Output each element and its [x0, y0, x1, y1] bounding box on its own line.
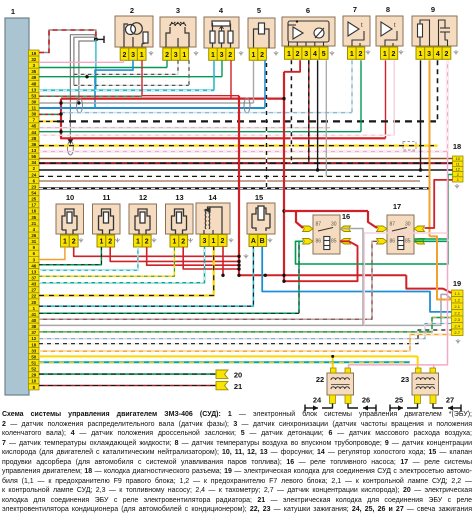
svg-text:2: 2 [108, 239, 112, 246]
svg-text:1: 1 [212, 238, 216, 245]
wire red wire injector 12 pin 2 [147, 247, 239, 265]
connector 20 [216, 370, 228, 378]
wire grey dashed riser sensor 3 pin 3 [177, 60, 179, 74]
svg-text:2.3: 2.3 [454, 317, 460, 322]
wire white black-dashed wire [39, 175, 430, 177]
wire red wire injector 11 pin 2 [110, 247, 239, 261]
svg-text:2: 2 [296, 51, 300, 58]
svg-text:15: 15 [255, 193, 263, 202]
svg-text:7: 7 [353, 5, 357, 14]
wire grey screen wire c [79, 41, 96, 102]
caption text block [2, 410, 472, 515]
svg-text:A: A [251, 238, 256, 245]
svg-text:1: 1 [11, 7, 15, 16]
svg-text:16: 16 [31, 209, 36, 214]
wire orange wire to injector 10 pin 1 [39, 247, 65, 260]
node junction bus a [237, 274, 240, 277]
sensor 6 mass air flow sensor [282, 17, 335, 46]
connector pins of valve 15 [249, 235, 267, 247]
wire teal dashed wire to regulator 14 pin 3 [39, 247, 205, 283]
svg-text:40: 40 [31, 318, 36, 323]
svg-text:21: 21 [234, 382, 242, 391]
wire pink wire to coil tops [349, 152, 448, 369]
svg-text:25: 25 [31, 197, 36, 202]
svg-text:1: 1 [252, 52, 256, 59]
wire red riser sensor 6 pin 2 to trunk [284, 60, 300, 72]
connector pins of injector 13 [170, 235, 188, 247]
node junction on green [59, 130, 62, 133]
svg-text:4: 4 [219, 6, 224, 15]
svg-text:30: 30 [31, 99, 36, 104]
antenna mark near 11 [115, 238, 119, 243]
antenna mark near 6 [330, 51, 334, 56]
svg-text:38: 38 [31, 324, 36, 329]
svg-text:49: 49 [31, 75, 36, 80]
svg-text:1: 1 [383, 51, 387, 58]
svg-text:26: 26 [31, 233, 36, 238]
svg-text:3: 3 [220, 52, 224, 59]
wire black dashed wire to connector 19 [39, 330, 452, 344]
svg-text:34: 34 [31, 160, 36, 165]
wire green dashed wire to injector 11 pin 1 [39, 247, 101, 265]
screen terminator symbol [96, 36, 104, 43]
svg-text:2: 2 [358, 51, 362, 58]
svg-text:3: 3 [304, 51, 308, 58]
svg-text:35: 35 [31, 215, 36, 220]
svg-text:1: 1 [182, 52, 186, 59]
wire yellow wire to ignition coils [39, 355, 418, 357]
svg-text:87: 87 [390, 222, 396, 228]
wire black wire to connector 18 [39, 169, 453, 171]
wire pink riser to sensor 2 pin 2 [123, 60, 125, 62]
ECU connector pin column (pins of unit 1) [29, 50, 40, 390]
wire black dashed shield wire of knock sensor [266, 63, 268, 188]
dashed boundary box [403, 142, 416, 151]
wire yellow black-dashed stub [39, 120, 59, 122]
svg-text:13: 13 [31, 148, 36, 153]
wire yellow black-dashed wire to regulator 14 pin 1 [39, 247, 214, 296]
svg-text:B: B [260, 238, 265, 245]
wire pink dashed wire to sensor 9 pin 2 [39, 151, 448, 153]
antenna mark near 2 [149, 51, 153, 56]
node junction yellow [331, 355, 334, 358]
wire black dashed wire (wide) [57, 120, 438, 122]
svg-text:46: 46 [31, 263, 36, 268]
svg-text:2: 2 [165, 52, 169, 59]
svg-text:16: 16 [342, 212, 350, 221]
relay 17 engine management system relay [387, 215, 414, 254]
connector pins of sensor 8 [381, 47, 398, 59]
wire dark red dashed wire from ECU pin 19 to ignition [39, 30, 96, 53]
node junction injector 13 red [237, 267, 240, 270]
antenna mark near 5 [274, 51, 278, 56]
svg-text:35: 35 [31, 69, 36, 74]
antenna mark below 18 [455, 184, 459, 189]
svg-text:44: 44 [31, 130, 36, 135]
wire red supply bus lower [239, 274, 406, 276]
injector 12 [129, 204, 157, 234]
diagnostic connector 18 [453, 156, 464, 182]
wire black white-dashed wire [39, 187, 430, 189]
wire red wire injector 10 pin 2 [74, 247, 239, 256]
svg-text:23: 23 [401, 375, 409, 384]
svg-text:48: 48 [31, 81, 36, 86]
node junction shield [77, 101, 80, 104]
svg-text:28: 28 [31, 136, 36, 141]
injector 13 [166, 204, 194, 234]
svg-text:12: 12 [139, 193, 147, 202]
node junction injector 11 red [237, 260, 240, 263]
node junction of screen wires [94, 37, 98, 41]
ECU unit 1 (electronic control unit) [5, 18, 29, 395]
svg-text:29: 29 [31, 373, 36, 378]
wire dark red black-dashed wire to connector 21 [39, 385, 216, 387]
node junction black 2 [419, 168, 422, 171]
svg-text:51: 51 [31, 360, 36, 365]
wire red wire relay 17 pin 30 to connector 18 [425, 180, 453, 228]
wire grey screened wire to knock sensor pin 1 [39, 102, 254, 104]
svg-text:1.1: 1.1 [454, 291, 460, 296]
junction arrow on screen drop [67, 139, 73, 144]
wire green dashed wire relay 16 pin 86 [299, 241, 303, 313]
wire grey wire to connector 19 socket 2.1 [363, 294, 452, 325]
node junction red trunk / grey [59, 101, 62, 104]
svg-text:86: 86 [390, 239, 396, 245]
svg-text:50: 50 [31, 354, 36, 359]
svg-text:8: 8 [386, 5, 390, 14]
screen ellipse left [77, 98, 83, 113]
connector pins of injector 12 [134, 235, 152, 247]
wire green wire ECU to sensor 3 pin 2 [39, 67, 167, 69]
connector pins of sensor 9 [416, 47, 451, 59]
sensor 9 oxygen concentration sensor [412, 16, 457, 46]
node junction black [316, 168, 319, 171]
svg-text:85: 85 [331, 239, 337, 245]
wire red wire regulator 14 pin 2 [222, 247, 224, 276]
wire turquoise drop from screen junction [95, 39, 97, 90]
svg-text:52: 52 [31, 367, 36, 372]
sensor 4 throttle position sensor [204, 17, 239, 48]
wire grey screen wire a [70, 35, 96, 146]
wire pale blue dashed wire to sensor 7 pin 1 [61, 112, 352, 114]
spark plug 26 [363, 405, 376, 412]
wire grey dashed riser sensor 3 pin 1 [188, 60, 190, 85]
svg-text:18: 18 [31, 342, 36, 347]
svg-text:27: 27 [446, 396, 454, 405]
svg-text:11: 11 [31, 106, 36, 111]
svg-text:31: 31 [31, 239, 36, 244]
connector pins of sensor 6 [285, 47, 329, 59]
svg-text:13: 13 [31, 269, 36, 274]
svg-text:1: 1 [457, 177, 459, 182]
wire pale pink wire near relay 17 [364, 233, 447, 325]
wire brown thin wire [39, 180, 420, 182]
wire black dashed riser sensor 9 pin 4 [437, 60, 439, 121]
injector 11 [93, 204, 121, 234]
node junction injector 12 red [237, 264, 240, 267]
wire grey riser knock sensor pin 1 [253, 60, 255, 103]
wire pink wire ECU to sensor 2 pin 2 [39, 61, 124, 63]
svg-text:24: 24 [313, 396, 322, 405]
wire orange dashed wire to connector 19 socket 2.7 [39, 335, 452, 352]
wire red bus to relays [296, 210, 368, 212]
connector pins of injector 11 [97, 235, 115, 247]
wire black wire coil 23 to plug 27 [433, 404, 443, 409]
svg-text:23: 23 [31, 184, 36, 189]
connector pins of sensor 2 [120, 48, 146, 60]
svg-text:85: 85 [405, 239, 411, 245]
svg-text:2: 2 [445, 51, 449, 58]
svg-text:26: 26 [362, 396, 370, 405]
svg-text:41: 41 [31, 312, 36, 317]
wire black wire coil 22 to plug 24 [322, 404, 333, 409]
svg-text:10: 10 [31, 379, 36, 384]
wire thick red feed wire [61, 97, 284, 99]
connector pins of sensor 7 [348, 47, 365, 59]
svg-text:33: 33 [31, 348, 36, 353]
wire pink blue-dashed wire to connector 19 socket 2.4 [39, 324, 452, 339]
wire pale blue riser sensor 7 pin 1 [351, 60, 353, 112]
screen ellipse right [244, 98, 250, 113]
wire pale pink riser sensor 8 pin 2 [393, 60, 395, 135]
svg-text:2: 2 [221, 238, 225, 245]
svg-text:55: 55 [31, 154, 36, 159]
wire green wire ECU to sensor 4 pin 3 [39, 76, 222, 78]
wire red wire relay 16 pin 85 to trunk [284, 241, 358, 281]
svg-text:87: 87 [316, 222, 322, 228]
node junction regulator red [221, 274, 224, 277]
svg-text:45: 45 [31, 124, 36, 129]
svg-text:1: 1 [99, 239, 103, 246]
wire blue screened wire to knock sensor pin 2 [39, 107, 265, 109]
wire blue wire from sensor 2 pin 3 [95, 60, 133, 108]
svg-text:36: 36 [31, 142, 36, 147]
node junction trunk2 bus [282, 209, 285, 212]
wire green red-dashed wire [39, 95, 142, 97]
wire black wire coil 22 to plug 26 [348, 404, 358, 409]
screen ellipse lower [67, 141, 73, 155]
antenna mark near 8 [399, 50, 403, 55]
node junction on green wire [85, 75, 88, 78]
node junction red trunk2 end [282, 280, 285, 283]
wire grey dashed screen wire to sensor 3 pin 3 [74, 73, 178, 75]
svg-text:22: 22 [316, 375, 324, 384]
wire red drop to connector 19 socket 1.1 [406, 275, 451, 293]
svg-text:5: 5 [322, 51, 326, 58]
wire green black-dashed wire to connector 20 [39, 373, 216, 375]
svg-text:20: 20 [31, 300, 36, 305]
wire yellow black-dashed wire [39, 145, 438, 147]
svg-text:32: 32 [31, 57, 36, 62]
svg-text:1.2: 1.2 [454, 298, 460, 303]
spark plug 24 [305, 405, 318, 412]
node junction bus b [264, 274, 267, 277]
wire turquoise riser to sensor 4 pin 1 [213, 60, 215, 90]
svg-text:3: 3 [176, 6, 180, 15]
wire grey wire relay 16 pin 30 [340, 229, 363, 326]
sensor 8 intake air temperature sensor [376, 16, 403, 46]
antenna mark near red bus [244, 254, 248, 259]
wire yellow branch to coil 23 [417, 356, 419, 368]
svg-text:2.4: 2.4 [454, 324, 460, 329]
svg-text:18: 18 [453, 142, 461, 151]
wire orange wire to connector 19 socket 1.2 [430, 236, 452, 299]
wire green wire relay 17 pin 85 to connector 18 [414, 175, 453, 240]
wire red trunk vertical 2 (main feed) [283, 72, 285, 281]
svg-text:2.1: 2.1 [454, 304, 460, 309]
wire green red-dashed stub [39, 113, 61, 115]
wire red bus branch [284, 210, 296, 212]
injector 10 [56, 204, 84, 234]
wire red riser sensor 4 pin 2 [230, 60, 232, 98]
svg-text:4: 4 [313, 51, 317, 58]
wire red diagonal to relay 17 pin 87 [368, 211, 377, 228]
purge valve 15 [247, 203, 275, 234]
svg-text:1: 1 [287, 51, 291, 58]
svg-text:25: 25 [395, 396, 403, 405]
svg-text:27: 27 [31, 288, 36, 293]
wire green wire relay 16 pin 86 to relay 17 pin 85 [296, 241, 449, 264]
antenna mark near 15 [268, 238, 272, 243]
svg-text:9: 9 [431, 5, 435, 14]
wire green wire to sensor 7 pin 2 [39, 131, 361, 133]
antenna mark near 10 [79, 238, 83, 243]
svg-text:17: 17 [31, 203, 36, 208]
wire grey riser sensor 6 pin 5 [325, 60, 327, 176]
wire red trunk vertical 1 (injector feed) [238, 96, 240, 276]
antenna mark near 4 [239, 51, 243, 56]
svg-text:30: 30 [405, 222, 411, 228]
sensor 7 coolant temperature sensor [343, 16, 370, 46]
svg-text:19: 19 [31, 51, 36, 56]
svg-text:3: 3 [427, 51, 431, 58]
wire grey dashed screen wire to sensor 3 pin 1 [74, 84, 189, 86]
svg-text:19: 19 [453, 279, 461, 288]
svg-text:37: 37 [31, 275, 36, 280]
relay 16 fuel pump relay [313, 215, 340, 254]
svg-text:1: 1 [136, 239, 140, 246]
svg-text:1: 1 [350, 51, 354, 58]
spark plug 25 [390, 405, 403, 412]
svg-text:2: 2 [391, 51, 395, 58]
wire blue riser knock sensor pin 2 [264, 60, 266, 108]
wire pink branch to coil 23 [433, 365, 435, 368]
ignition coil 22 [327, 373, 354, 395]
svg-text:6: 6 [306, 6, 310, 15]
wire green riser sensor 7 pin 2 [360, 60, 362, 131]
node junction injector 10 red [237, 255, 240, 258]
wire pale pink dashed wire [39, 127, 330, 129]
svg-text:30: 30 [31, 112, 36, 117]
antenna mark near 14 [229, 238, 233, 243]
svg-text:22: 22 [31, 294, 36, 299]
svg-text:20: 20 [234, 371, 242, 380]
sensor 3 crankshaft synchronization sensor [160, 17, 196, 47]
wire yellow dashed wire to injector 13 pin 1 [39, 247, 174, 276]
svg-text:2: 2 [181, 239, 185, 246]
svg-text:2: 2 [260, 52, 264, 59]
svg-text:24: 24 [31, 172, 36, 177]
wire black riser sensor 6 pin 4 [317, 60, 319, 170]
wire red wire injector 13 pin 2 [183, 247, 239, 269]
wire red riser sensor 2 pin 1 [141, 60, 143, 95]
node junction on pale blue wire [59, 112, 62, 115]
antenna mark near 7 [366, 50, 370, 55]
wire black wire coil 23 to plug 25 [407, 404, 418, 409]
svg-text:5: 5 [257, 6, 261, 15]
wire pale pink wire to sensor 8 pin 2 [39, 134, 394, 136]
wire green black-dashed wire row [39, 312, 299, 314]
svg-text:53: 53 [31, 93, 36, 98]
ignition coil 23 [412, 373, 439, 395]
wire orange trunk from sensor 9 pin 3 [429, 60, 431, 236]
wire thick red trunk left [61, 99, 386, 139]
connector pins of sensor 5 [249, 48, 266, 60]
wire grey screen wire b [74, 37, 96, 74]
wire green riser to sensor 3 pin 2 [166, 60, 168, 67]
svg-text:13: 13 [31, 87, 36, 92]
svg-text:1: 1 [63, 239, 67, 246]
antenna mark near 12 [152, 238, 156, 243]
wire green riser to sensor 4 pin 3 [221, 60, 223, 76]
wire maroon dashed riser sensor 6 pin 3 [308, 60, 310, 163]
svg-text:54: 54 [31, 191, 36, 196]
svg-text:2: 2 [130, 6, 134, 15]
wire dark red black-dashed wire to connector 18 [39, 162, 453, 164]
svg-text:2: 2 [72, 239, 76, 246]
wire turquoise black-dashed wire to valve 15 pin A [39, 247, 253, 307]
wire red wire from sensor 2 pin 1 [142, 95, 239, 97]
antenna mark near 9 [454, 50, 458, 55]
svg-text:14: 14 [208, 193, 217, 202]
wire brown wire to connector 18 [39, 158, 453, 160]
wire grey screen drop d [73, 74, 75, 85]
wire turquoise yellow-dashed wire [39, 361, 410, 363]
svg-text:2: 2 [123, 52, 127, 59]
svg-text:21: 21 [31, 221, 36, 226]
wire green orange-dashed wire to connector 19 socket 2.3 [39, 318, 452, 332]
wire yellow branch to coil 22 [332, 356, 334, 368]
wire black dashed riser sensor 6 pin 1 [290, 60, 292, 163]
svg-text:4: 4 [436, 51, 440, 58]
svg-text:3: 3 [174, 52, 178, 59]
svg-text:30: 30 [331, 222, 337, 228]
wire red riser sensor 8 pin 1 [385, 60, 387, 138]
connector pins of regulator 14 [200, 235, 227, 247]
connector pins of injector 10 [61, 235, 79, 247]
wire grey wire row [39, 324, 363, 326]
wire red diagonal to relay 16 pin 87 [296, 211, 303, 228]
svg-text:10: 10 [66, 193, 74, 202]
svg-text:1: 1 [140, 52, 144, 59]
wire blue wire from valve 15 pin B [262, 247, 451, 312]
svg-text:13: 13 [175, 193, 183, 202]
antenna mark below 19 [456, 339, 460, 344]
svg-text:43: 43 [31, 282, 36, 287]
connector pins of sensor 4 [209, 48, 235, 60]
wire grey maroon-dashed wire relay 17 pin 86 [39, 241, 377, 319]
svg-text:3: 3 [203, 238, 207, 245]
svg-text:11: 11 [103, 193, 111, 202]
svg-text:86: 86 [316, 239, 322, 245]
harness connector 19 [452, 290, 464, 336]
svg-text:2: 2 [228, 52, 232, 59]
svg-text:2: 2 [145, 239, 149, 246]
svg-text:37: 37 [31, 330, 36, 335]
svg-text:2.2: 2.2 [454, 311, 460, 316]
node junction bus c [282, 274, 285, 277]
connector pins of sensor 3 [163, 48, 189, 60]
